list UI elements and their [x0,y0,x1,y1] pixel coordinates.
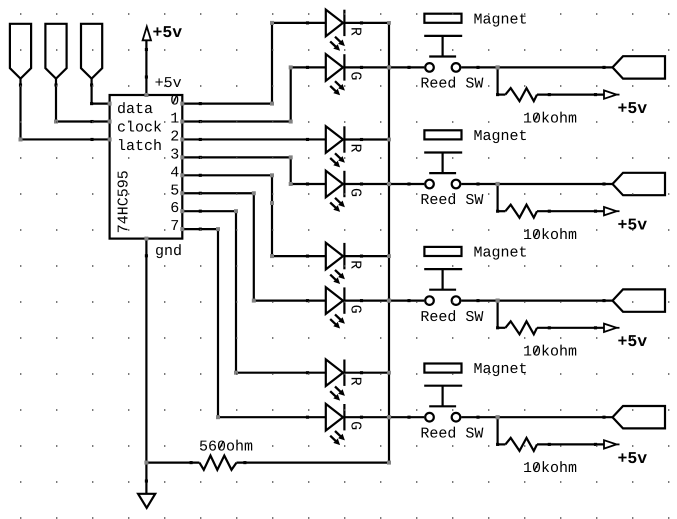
wire LED D1G cathode to reed switch SW1 [344,66,424,69]
connector J4 (output, right) [613,56,666,78]
LED D4G (G) [326,404,363,445]
LED D2G (G) [326,171,363,212]
pin numbers 0-7 on U1 [170,93,179,236]
svg-text:74HC595: 74HC595 [116,170,133,233]
junction at 389,67.4 [387,65,391,69]
svg-text:6: 6 [170,200,179,217]
wire U1 pin 3 to LED G2 anode [182,156,325,186]
junction at 272,256.1 [270,254,274,258]
junction at 182.3,139.46 [180,137,184,141]
+5v arrow symbol (group 3) [604,324,647,352]
svg-text:10kohm: 10kohm [523,460,577,477]
svg-text:7: 7 [170,218,179,235]
magnet M2 [424,128,527,145]
svg-text:Reed SW: Reed SW [420,76,483,93]
svg-text:gnd: gnd [155,243,182,260]
junction at 497.6,184 [496,182,500,186]
svg-text:Magnet: Magnet [474,361,528,378]
junction at 290.7,67.4 [289,65,293,69]
junction at 146.4,95 [144,93,148,97]
svg-text:Magnet: Magnet [474,245,528,262]
svg-text:latch: latch [117,138,162,155]
resistor R5 560ohm [146,438,389,469]
junction at 20.5,139.46 [19,137,23,141]
svg-text:G: G [346,71,363,80]
junction at 497.6,300.6 [496,299,500,303]
junction at 253.8,300.6 [252,299,256,303]
svg-text:+5v: +5v [618,99,648,118]
svg-text:3: 3 [170,146,179,163]
resistor R2 10kohm pullup [496,184,603,244]
svg-text:+5v: +5v [618,332,648,351]
wire cathode bus vertical [388,23,390,463]
svg-text:Reed SW: Reed SW [420,425,483,442]
wire SW2 to connector J5 [461,182,612,185]
wire U1 pin 1 to LED G1 anode [182,66,325,123]
junction at 146.4,462.6 [144,461,148,465]
junction at 182.3,229.11 [180,227,184,231]
svg-text:Magnet: Magnet [474,128,528,145]
junction at 389,372.7 [387,371,391,375]
svg-text:Magnet: Magnet [474,11,528,28]
junction at 182.3,157.39 [180,155,184,159]
svg-text:10kohm: 10kohm [523,344,577,361]
connector J7 (output, right) [613,406,666,428]
svg-text:R: R [346,143,363,152]
+5v arrow symbol (group 2) [604,207,647,235]
wire LED D3R cathode to bus [344,255,389,258]
ground symbol [138,494,155,508]
wire U1 pin 2 to LED R2 anode [182,138,325,141]
op IC U1 74HC595 shift register [110,75,183,260]
svg-text:2: 2 [170,128,179,145]
wire SW1 to connector J4 [461,66,612,69]
junction at 182.3,103.6 [180,102,184,106]
junction at 56,121.53 [54,120,58,124]
LED D1G (G) [326,54,363,95]
wire U1 pin 5 to LED G3 anode [182,192,325,302]
reed switch SW3 contacts [420,296,483,325]
wire net DATA (J3 to U1 data) [90,79,110,106]
svg-text:R: R [346,260,363,269]
connector J5 (output, right) [613,173,666,195]
junction at 182.3,211.18 [180,209,184,213]
junction at 389,139.5 [387,138,391,142]
wire U1 pin 4 to LED R3 anode [182,174,325,258]
svg-text:R: R [346,27,363,36]
junction at 497.6,417.2 [496,415,500,419]
wire LED D2R cathode to bus [344,138,389,141]
+5v arrow symbol (group 4) [604,440,647,468]
svg-text:G: G [346,188,363,197]
wire U1 gnd to ground [145,239,148,494]
junction at 272,175.32 [270,173,274,177]
wire +5v to U1 vcc [145,40,148,95]
wire U1 pin 6 to LED R4 anode [182,210,325,375]
junction at 182.3,121.53 [180,120,184,124]
wire net LATCH (J1 to U1 latch) [19,79,110,141]
resistor R3 10kohm pullup [496,301,603,361]
junction at 389,256.1 [387,254,391,258]
LED D3G (G) [326,287,363,328]
LED D2R (R) [326,126,363,167]
svg-text:+5v: +5v [155,75,182,92]
magnet M3 [424,245,527,262]
svg-text:10kohm: 10kohm [523,227,577,244]
wire SW4 to connector J7 [461,416,612,419]
+5v arrow symbol (group 1) [604,90,647,118]
junction at 182.3,175.32 [180,173,184,177]
svg-text:clock: clock [117,120,162,137]
junction at 236,211.18 [234,209,238,213]
junction at 218,417.2 [216,415,220,419]
reed switch SW3 actuator [424,269,462,290]
wire joint on pin 4 net [0,0,1,1]
reed switch SW2 actuator [424,153,462,174]
svg-text:1: 1 [170,111,179,128]
junction at 497.6,67.4 [496,65,500,69]
svg-text:+5v: +5v [618,216,648,235]
connector J3 (input) [81,24,102,79]
magnet M1 [424,11,527,28]
junction at 218,229.11 [216,227,220,231]
junction at 109.6,121.53 [108,120,112,124]
svg-text:G: G [346,421,363,430]
svg-text:G: G [346,305,363,314]
reed switch SW2 contacts [420,180,483,210]
junction at 389,184 [387,182,391,186]
svg-text:R: R [346,377,363,386]
junction at 182.3,193.25 [180,191,184,195]
junction at 146.4,238.6 [144,237,148,241]
junction at 389,417.2 [387,415,391,419]
+5v supply symbol (top) [143,23,183,42]
junction at 389,462.6 [387,461,391,465]
junction at 236,372.7 [234,371,238,375]
reed switch SW1 actuator [424,36,462,57]
connector J6 (output, right) [613,289,666,311]
junction at 109.6,103.6 [108,102,112,106]
resistor R1 10kohm pullup [496,67,603,127]
magnet M4 [424,361,527,378]
junction at 253.8,193.25 [252,191,256,195]
wire LED D4R cathode to bus [344,371,389,374]
wire U1 pin 7 to LED G4 anode [182,228,325,419]
reed switch SW1 contacts [420,63,483,92]
svg-text:+5v: +5v [618,449,648,468]
svg-text:10kohm: 10kohm [523,110,577,127]
svg-text:Reed SW: Reed SW [420,309,483,326]
reed switch SW4 contacts [420,413,483,442]
resistor R4 10kohm pullup [496,417,603,477]
svg-text:560ohm: 560ohm [199,438,253,455]
connector J2 (input) [45,24,66,79]
LED D4R (R) [326,359,363,400]
LED D3R (R) [326,243,363,284]
junction at 290.7,157.39 [289,155,293,159]
junction at 272,103.6 [270,102,274,106]
junction at 272,22.9 [270,21,274,25]
svg-text:5: 5 [170,182,179,199]
wire SW3 to connector J6 [461,299,612,302]
junction at 389,300.6 [387,299,391,303]
svg-text:+5v: +5v [153,23,183,42]
junction at 109.6,139.46 [108,137,112,141]
wire U1 pin 0 to LED R1 anode [182,21,325,105]
wire LED D2G cathode to reed switch SW2 [344,182,424,185]
wire LED D1R cathode to bus [344,21,389,24]
junction at 272,203 [270,201,274,205]
junction at 389,22.9 [387,21,391,25]
wire net CLOCK (J2 to U1 clock) [54,79,109,123]
junction at 290.7,184 [289,182,293,186]
svg-text:Reed SW: Reed SW [420,192,483,209]
svg-text:data: data [117,101,153,118]
reed switch SW4 actuator [424,386,462,407]
junction at 290.7,121.53 [289,120,293,124]
LED D1R (R) [326,10,363,51]
connector J1 (input) [10,24,31,79]
wire LED D4G cathode to reed switch SW4 [344,416,424,419]
wire LED D3G cathode to reed switch SW3 [344,299,424,302]
svg-text:4: 4 [170,164,179,181]
